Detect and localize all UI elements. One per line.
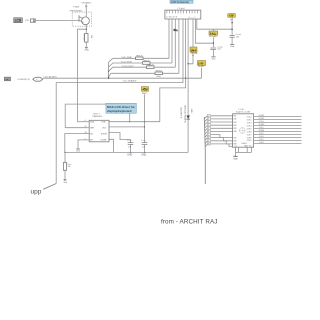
wire J2 pin7 to U2 jog [211, 135, 233, 138]
ground below C2 [230, 45, 234, 49]
diode D1 LED on pin7 wire [186, 116, 190, 120]
svg-text:IN5: IN5 [234, 128, 237, 130]
wire collector of Q1 up [85, 9, 87, 17]
resistor R2 pullup [136, 57, 144, 60]
IC U1 pin names [90, 121, 107, 142]
wire R6 to ground [64, 170, 66, 179]
svg-text:CPLANE 1: CPLANE 1 [81, 1, 92, 4]
svg-text:POA·: POA· [102, 121, 107, 124]
wire J1 pin2 down [171, 19, 173, 63]
svg-text:1·R·: 1·R· [198, 62, 204, 66]
svg-text:1N4·: 1N4· [190, 48, 197, 52]
wire J2 pin6 to U2 [211, 130, 233, 132]
label backlight (yellow highlight) [190, 47, 197, 52]
svg-text:from - ARCHIT RAJ: from - ARCHIT RAJ [161, 218, 218, 225]
svg-text:(10k): (10k) [156, 76, 161, 78]
wire J2 pin8 to U2 jog [211, 138, 233, 141]
svg-text:4: 4 [208, 125, 209, 127]
wire J2 pin4 to U2 [211, 124, 233, 126]
wire U2 out row5 [254, 127, 302, 129]
wire +5V stub down to U1 VDD [144, 94, 145, 142]
svg-text:IN3: IN3 [234, 122, 237, 124]
svg-text:COL5: COL5 [259, 139, 264, 141]
svg-text:"LCD_SDA(P4)": "LCD_SDA(P4)" [122, 79, 137, 82]
bus entry diamond symbol [33, 77, 43, 81]
node row1/riser junction [129, 121, 130, 122]
keypad header J2 pin numbers [208, 116, 210, 146]
resistor R5 pullup [155, 72, 163, 75]
svg-text:Gnd: Gnd [63, 182, 67, 184]
svg-text:COL2: COL2 [259, 133, 264, 135]
IC U2 logo circle [240, 128, 246, 134]
IC U2 right pin names [234, 116, 251, 147]
svg-text:1 2 3 4 5 6 7 8: 1 2 3 4 5 6 7 8 [166, 17, 177, 19]
svg-text:TVA9058L5: TVA9058L5 [92, 115, 103, 118]
node junction below Q1 [86, 29, 87, 30]
pullup row net LCD_SDA [113, 56, 169, 59]
wire J1 pin10 down right to +3V3 rail [197, 19, 232, 29]
wire U2 out row10 [254, 142, 302, 144]
IC U1 title MCU-T TWA9058 [92, 113, 103, 117]
svg-text:ROW1: ROW1 [259, 115, 264, 117]
svg-text:10: 10 [208, 144, 210, 146]
svg-text:2: 2 [208, 119, 209, 121]
svg-text:IN8: IN8 [234, 141, 237, 143]
resistor R1 [83, 34, 92, 43]
svg-text:C·ca·t: C·ca·t [141, 139, 146, 142]
connector plug symbol P15 [30, 19, 35, 22]
svg-text:IN4: IN4 [234, 125, 237, 127]
svg-text:Gnd: Gnd [212, 58, 216, 60]
transistor Q1 circle [82, 17, 90, 25]
svg-text:IN1: IN1 [90, 133, 93, 135]
capacitor C3 1uF [127, 140, 133, 153]
ground at U1 row4 [76, 149, 80, 153]
wire U2 out row8 [254, 136, 302, 138]
svg-text:COL4: COL4 [259, 136, 264, 138]
wire VR1 stubs [213, 29, 214, 47]
wire J1 pin6 down to SDA line [182, 19, 184, 83]
wire rail to R6 [64, 152, 66, 162]
bus entry diagonals J2 [204, 116, 207, 147]
svg-text:"LCD_SDA": "LCD_SDA" [121, 56, 132, 59]
svg-text:OUT4: OUT4 [247, 125, 252, 127]
connector J1 pin numbers [166, 16, 196, 19]
label GRY (grey tag) [4, 77, 10, 81]
svg-text:IN6: IN6 [234, 131, 237, 133]
IC U1 left pin numbers [84, 120, 86, 140]
keypad header J2 pin boxes [207, 115, 210, 146]
IC U1 left pin stubs [87, 122, 90, 140]
svg-text:COL3: COL3 [259, 121, 264, 123]
connector J1 body [165, 10, 201, 19]
wire J1 pin9 down right to VR node [195, 19, 213, 43]
wire net SDA(P4) horizontal [56, 83, 183, 184]
resistor R4 pullup [147, 66, 155, 69]
svg-text:+5v: +5v [142, 88, 148, 92]
IC U2 body [233, 114, 254, 147]
wire emitter of Q1 down [85, 25, 87, 34]
transistor Q1 dashed highlight box [72, 12, 91, 26]
note box (cyan) MAX232 LCD driver for display/keyboard [106, 103, 136, 113]
svg-text:5: 5 [208, 128, 209, 130]
power flag +5V (yellow highlight) [141, 87, 148, 92]
wire J1 pin3 down [174, 19, 176, 67]
wire J2 pin1 to U2 [211, 115, 233, 117]
wire J2 pin3 to U2 [211, 121, 233, 123]
svg-text:ROW3: ROW3 [259, 124, 264, 126]
wire J2 pin10 to U2 jog [211, 144, 233, 147]
wire LED-RED stub to ADJ net [201, 68, 203, 79]
wire U1 row3 left to gnd rail [65, 134, 87, 153]
IC U2 left pin names [234, 116, 237, 146]
wire J1 pin7 down through LED D1 [187, 19, 189, 152]
capacitor C1 [210, 46, 223, 57]
trimpot VR1 label (yellow highlight) [209, 31, 218, 36]
bus riser for pullup rows [109, 58, 113, 78]
node bus joins [108, 71, 109, 78]
svg-text:1·k△: 1·k△ [210, 32, 217, 36]
wire +3V3 rail [231, 17, 233, 35]
svg-text:upp: upp [31, 189, 42, 196]
svg-text:GND: GND [233, 158, 238, 160]
wire net ADJ horizontal [43, 77, 202, 79]
resistor R3 pullup [143, 62, 151, 65]
svg-text:OUT7: OUT7 [247, 134, 252, 136]
wire branch to U1 pin row [78, 29, 87, 122]
svg-text:IN2: IN2 [234, 119, 237, 121]
ground below R1 [85, 47, 90, 51]
svg-text:6: 6 [208, 131, 209, 133]
wire U1 row2 top route [65, 104, 130, 128]
wire J2 pin9 to U2 jog [211, 141, 233, 144]
svg-text:LED-BL: LED-BL [191, 53, 198, 55]
wire U2 out row9 [254, 139, 302, 141]
svg-text:GND: GND [85, 49, 90, 51]
svg-text:GRY: GRY [5, 79, 10, 81]
connector J1 pins [167, 10, 198, 13]
svg-text:10k: 10k [68, 166, 71, 168]
svg-text:"LCD_SCW": "LCD_SCW" [121, 62, 133, 64]
svg-text:P1807: P1807 [73, 6, 80, 8]
svg-text:LCD Connector: LCD Connector [171, 1, 189, 4]
svg-text:OUT9: OUT9 [247, 140, 252, 142]
svg-text:Keyb·Sc·an·dM·: Keyb·Sc·an·dM· [236, 112, 251, 114]
svg-text:C-c·p·: C-c·p· [127, 140, 132, 142]
wire J1 pin4 down [178, 19, 180, 73]
wire U1 row3 to C3 [109, 133, 131, 143]
wire ADJ branch to U1 P0 row [160, 78, 186, 122]
wire J1 pin1 down [168, 19, 170, 58]
svg-text:GND: GND [141, 155, 146, 157]
net flag CPLANE 1 [81, 1, 92, 9]
svg-text:1N4148·D·S·: 1N4148·D·S· [180, 107, 182, 119]
capacitor C4 1uF [141, 139, 147, 153]
wire U2 out row7 [254, 133, 302, 135]
svg-text:ELEGR: ELEGR [101, 133, 108, 135]
pullup row net LCD-CONT [113, 65, 175, 68]
node stub below backlight label [187, 55, 193, 65]
svg-text:ROW4: ROW4 [259, 130, 264, 132]
wire J2 pin5 to U2 [211, 127, 233, 129]
wire U1 row1 left to Q1 branch [78, 121, 87, 123]
wire J2 pin2 to U2 [211, 118, 233, 120]
ground below C1 [211, 57, 215, 60]
wire U2 bottom stubs to gnd [236, 147, 252, 156]
svg-text:COL1: COL1 [259, 127, 264, 129]
svg-text:LCD8X2(P-4): LCD8X2(P-4) [17, 79, 30, 81]
wire U2 out row1 [254, 115, 302, 117]
svg-text:9 ~ + - ^ !: 9 ~ + - ^ ! [189, 16, 197, 19]
svg-text:SDA·LCD·SDA(P4): SDA·LCD·SDA(P4) [183, 105, 186, 123]
wire U1 row1 to riser [109, 121, 160, 123]
node rail junctions [64, 152, 145, 153]
label LCD (grey tag top-left) [14, 18, 23, 23]
svg-text:OUT5: OUT5 [247, 128, 252, 130]
annotation upp with leader [31, 184, 57, 196]
wire U2 out row3 [254, 121, 302, 123]
resistor R6 10k [63, 163, 72, 171]
svg-text:GND: GND [127, 155, 132, 157]
ground below R6 [63, 180, 67, 184]
wire ground rail [65, 151, 188, 153]
svg-text:COL6: COL6 [259, 142, 264, 144]
svg-text:OUT2: OUT2 [247, 119, 252, 121]
svg-text:PNP/2N3906: PNP/2N3906 [70, 11, 83, 13]
svg-text:display/keyboard: display/keyboard [107, 109, 132, 113]
capacitor C2 [230, 34, 242, 45]
svg-text:LCD: LCD [15, 19, 22, 23]
wire U2 out row4 [254, 124, 302, 126]
svg-text:3: 3 [208, 122, 209, 124]
wire U2 out row6 [254, 130, 302, 132]
svg-text:1: 1 [208, 116, 209, 118]
svg-text:ROW2: ROW2 [259, 118, 264, 120]
polarity mark on J1 pin3 wire [173, 29, 178, 32]
svg-text:"LCD-CONT": "LCD-CONT" [122, 66, 134, 68]
transistor Q1 body [79, 15, 83, 23]
svg-text:LED·: LED· [190, 109, 192, 114]
label LED-RED (yellow highlight) [198, 61, 206, 66]
svg-text:IN1: IN1 [234, 116, 237, 118]
wire R1 to ground [85, 42, 87, 47]
ground below U2 [233, 156, 238, 160]
svg-text:9: 9 [208, 141, 209, 143]
label LCD Connector (cyan highlight) [170, 0, 193, 4]
svg-text:Gnd: Gnd [230, 46, 234, 48]
svg-text:OUT6: OUT6 [247, 131, 252, 133]
wire J1 pin8 down to backlight label [192, 19, 194, 47]
wire base of Q1 [35, 19, 79, 21]
svg-text:+3V: +3V [229, 14, 234, 18]
node ADJ junctions [108, 78, 186, 79]
wire keypad bus [204, 117, 205, 184]
wire U1 row4 to gnd rail [109, 139, 114, 152]
svg-text:OUT8: OUT8 [247, 137, 252, 139]
svg-text:DOWR: DOWR [101, 140, 107, 142]
power flag +3V3 (yellow highlight) [228, 14, 236, 18]
svg-text:R-RES: R-RES [83, 34, 85, 41]
svg-text:IN7: IN7 [234, 137, 237, 139]
svg-text:OUT1: OUT1 [247, 116, 252, 118]
IC U2 title keypad decoder [236, 108, 251, 114]
transistor Q1 label P1807 PNP/2N3906 [70, 6, 83, 12]
svg-text:7: 7 [208, 134, 209, 136]
wire U1 row4 left to ground [78, 140, 87, 149]
IC U1 body PCF8574 [89, 120, 109, 142]
pullup row net 4 [111, 70, 179, 78]
wire J1 pin5 down to node ADJ [185, 19, 187, 78]
svg-text:8: 8 [208, 137, 209, 139]
pullup row net LCD_SCL [113, 60, 172, 63]
wire U2 out row2 [254, 118, 302, 120]
svg-text:OUT3: OUT3 [247, 122, 252, 124]
wire U1 row2 VDD [109, 126, 144, 128]
wire U1 row2 left [65, 127, 86, 129]
